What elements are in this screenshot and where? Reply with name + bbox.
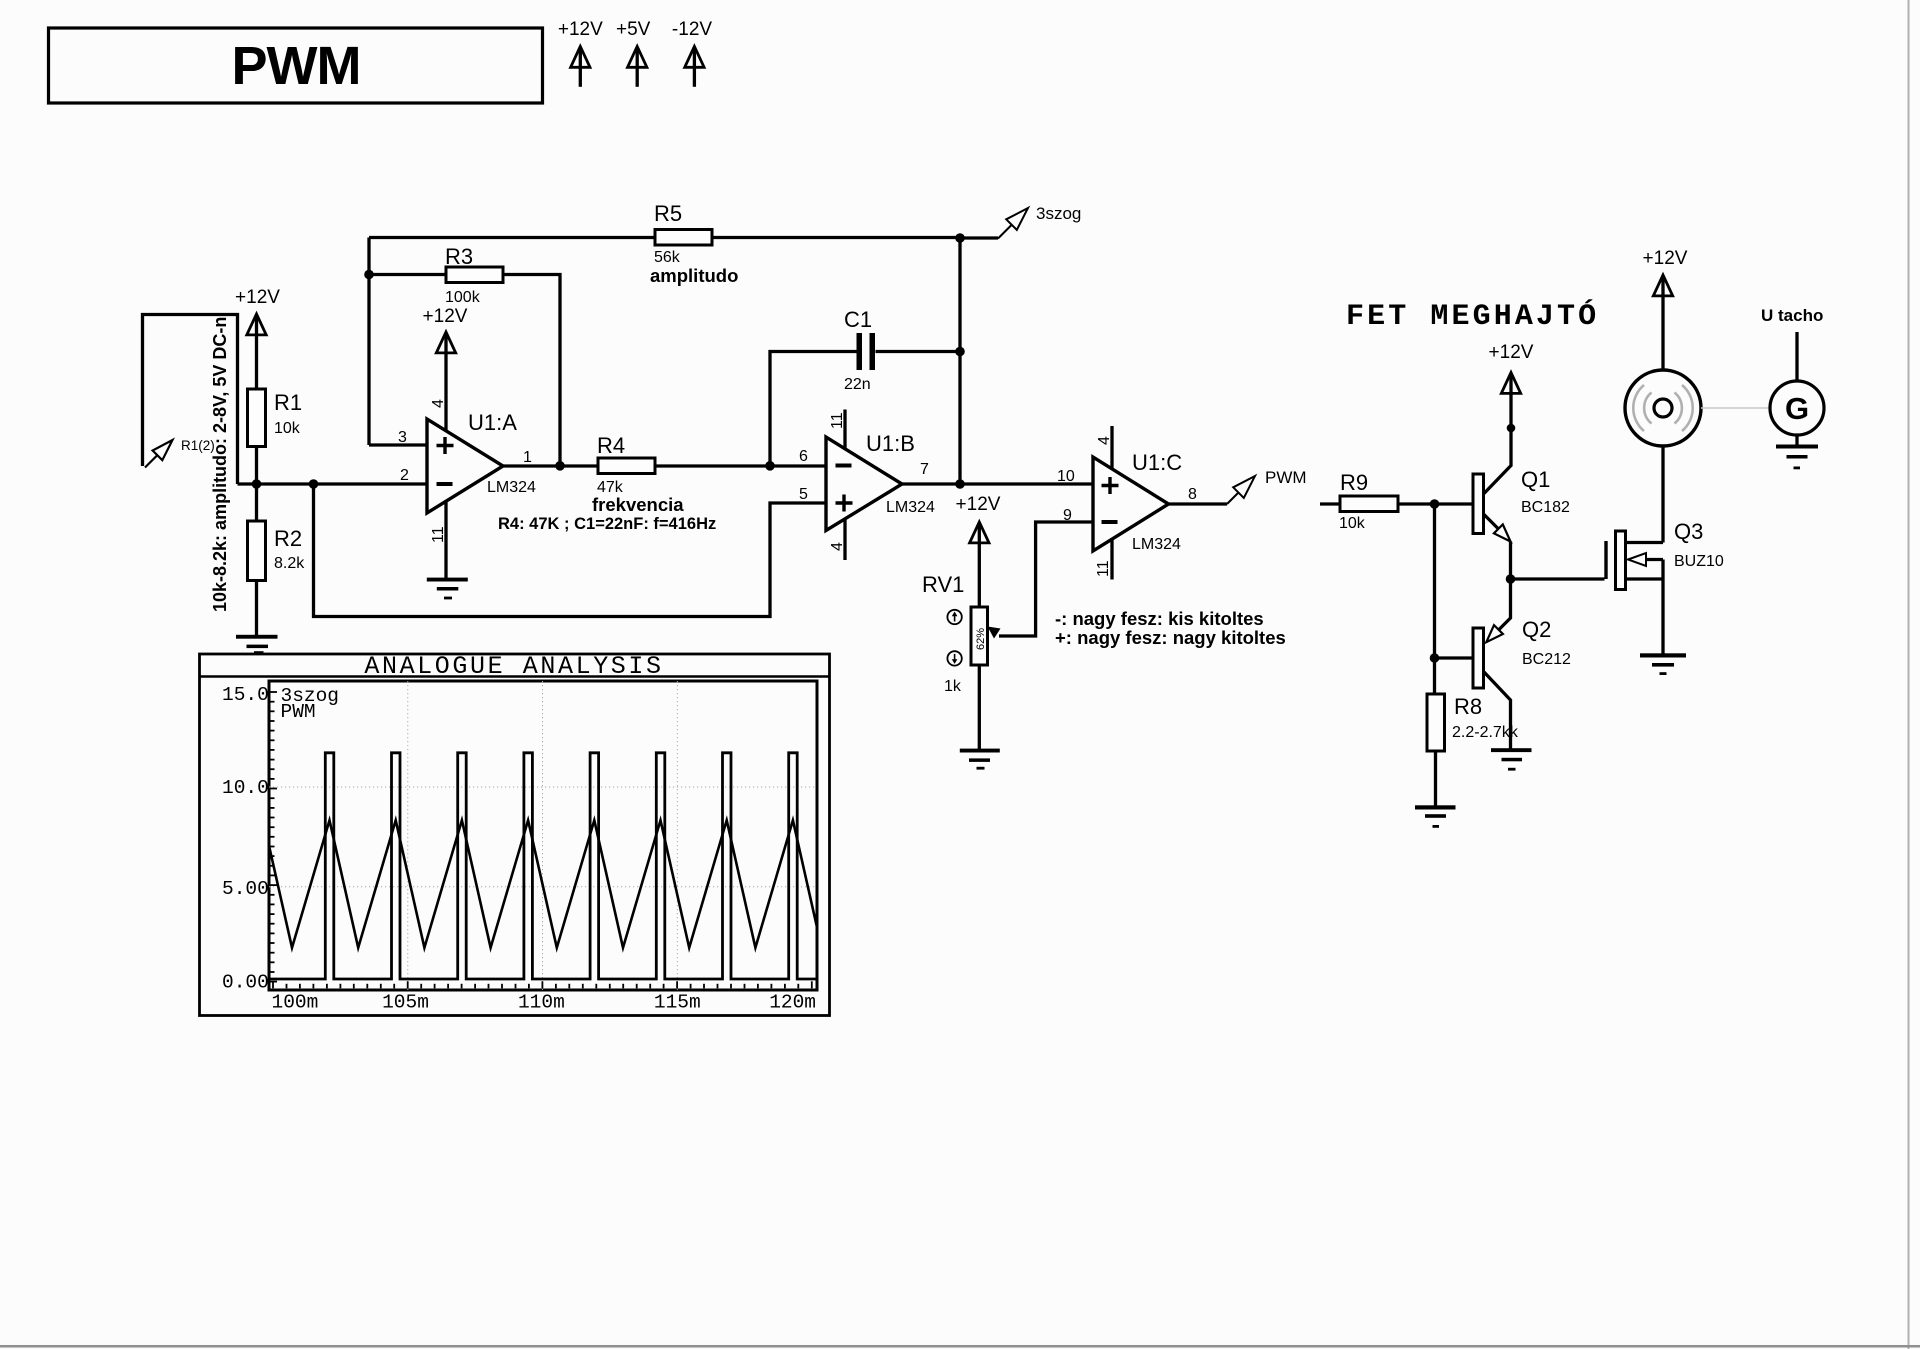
svg-text:100m: 100m <box>272 992 319 1014</box>
power terminal +5V (top) <box>616 19 651 87</box>
svg-text:22n: 22n <box>844 376 871 393</box>
svg-text:+5V: +5V <box>616 19 651 40</box>
svg-text:3szog: 3szog <box>1036 204 1081 223</box>
svg-text:+12V: +12V <box>956 494 1001 515</box>
op-amp U1:B <box>799 412 935 551</box>
svg-text:Q3: Q3 <box>1674 519 1703 544</box>
input bracket wire (loop around side note) <box>143 315 238 485</box>
wire R4 to U1:B pin6 <box>655 464 826 467</box>
graph outer frame <box>200 654 830 1016</box>
tacho stem <box>1795 332 1798 381</box>
resistor R5 <box>650 201 738 286</box>
resistor R8 <box>1427 694 1519 806</box>
output column wire <box>958 238 961 485</box>
svg-text:62%: 62% <box>975 628 987 650</box>
svg-text:-12V: -12V <box>672 19 712 40</box>
svg-text:10k: 10k <box>274 420 301 437</box>
motor M <box>1625 370 1701 446</box>
mosfet Q3 <box>1606 519 1724 654</box>
svg-text:100k: 100k <box>445 289 481 306</box>
svg-text:FET MEGHAJTÓ: FET MEGHAJTÓ <box>1346 299 1599 334</box>
trace PWM <box>269 753 817 979</box>
svg-text:G: G <box>1785 391 1809 426</box>
resistor R9 <box>1320 470 1473 532</box>
op-amp U1:A <box>398 399 536 543</box>
wire R2 to ground <box>255 581 258 636</box>
y axis ticks <box>269 692 277 982</box>
page bottom border <box>0 1345 1920 1348</box>
svg-text:R9: R9 <box>1340 470 1368 495</box>
junction (gate node) <box>1506 574 1516 584</box>
gridline 10.0 <box>269 786 817 788</box>
junction (Q2 base) <box>1430 653 1440 663</box>
ground (RV1) <box>960 749 1000 770</box>
svg-text:BC212: BC212 <box>1522 651 1571 668</box>
svg-text:5: 5 <box>799 486 808 503</box>
resistor R2 <box>248 521 306 581</box>
svg-text:+: nagy fesz: nagy kitoltes: +: nagy fesz: nagy kitoltes <box>1055 627 1286 648</box>
gridline 115m <box>676 681 678 990</box>
ground (Q3 source) <box>1640 653 1686 675</box>
junction (pin1 / R3) <box>555 461 565 471</box>
ground (U1:A pin11) <box>427 578 468 600</box>
svg-text:11: 11 <box>1095 560 1112 577</box>
svg-text:-: nagy fesz: kis kitoltes: -: nagy fesz: kis kitoltes <box>1055 608 1264 629</box>
svg-text:BC182: BC182 <box>1521 499 1570 516</box>
svg-text:5.00: 5.00 <box>222 878 269 900</box>
svg-text:3: 3 <box>398 429 407 446</box>
svg-text:U1:C: U1:C <box>1132 450 1182 475</box>
svg-text:+12V: +12V <box>1643 248 1688 269</box>
U1:C pin4 stem <box>1110 426 1113 469</box>
gridline 5.00 <box>269 886 817 888</box>
title block PWM <box>49 28 543 103</box>
junction (C1 / pin6) <box>765 461 775 471</box>
svg-text:115m: 115m <box>654 992 701 1014</box>
svg-text:R3: R3 <box>445 244 473 269</box>
svg-text:8.2k: 8.2k <box>274 555 305 572</box>
U1:B pin4 stem <box>843 519 846 560</box>
svg-text:U1:B: U1:B <box>866 431 915 456</box>
ground (Q2 collector) <box>1491 748 1532 770</box>
trace 3szog triangle <box>269 820 817 947</box>
plot area box <box>269 681 817 990</box>
svg-text:110m: 110m <box>518 992 565 1014</box>
svg-text:frekvencia: frekvencia <box>592 494 684 515</box>
gate wire <box>1511 577 1605 580</box>
svg-text:+12V: +12V <box>235 287 280 308</box>
svg-text:15.0: 15.0 <box>222 684 269 706</box>
svg-text:10: 10 <box>1057 468 1075 485</box>
power terminal +12V (RV1 top) <box>956 494 1001 607</box>
transistor Q2 <box>1435 579 1572 749</box>
svg-text:R2: R2 <box>274 526 302 551</box>
svg-text:R4: R4 <box>597 433 625 458</box>
svg-text:1k: 1k <box>944 678 962 695</box>
transistor Q1 <box>1473 428 1570 579</box>
potentiometer RV1 <box>922 572 988 695</box>
generator G <box>1770 381 1824 435</box>
graph title divider <box>200 675 830 678</box>
U1:A pin11 stem <box>444 500 447 579</box>
svg-text:PWM: PWM <box>232 36 361 96</box>
power terminal +12V (above R1) <box>235 287 280 389</box>
power terminal +12V (U1:A pin4) <box>423 306 468 431</box>
resistor R1 <box>248 389 303 447</box>
node wire pin2 row <box>238 482 428 485</box>
base rail down to Q2/R8 <box>1433 504 1436 694</box>
circled up arrow <box>947 610 961 624</box>
svg-text:+12V: +12V <box>423 306 468 327</box>
wire pin1 to R4 <box>503 464 598 467</box>
ground (below R2) <box>236 635 278 654</box>
node B (feedback tap) <box>309 479 319 489</box>
svg-text:ANALOGUE ANALYSIS: ANALOGUE ANALYSIS <box>364 652 663 681</box>
wire G to ground <box>1795 435 1798 445</box>
svg-text:Q2: Q2 <box>1522 617 1551 642</box>
svg-text:R4: 47K ; C1=22nF: f=416Hz: R4: 47K ; C1=22nF: f=416Hz <box>498 515 716 533</box>
svg-text:U1:A: U1:A <box>468 410 517 435</box>
x axis ticks <box>273 981 812 988</box>
top wire to R5 <box>369 236 655 239</box>
svg-text:Q1: Q1 <box>1521 467 1550 492</box>
svg-text:2: 2 <box>400 467 409 484</box>
U1:B pin11 stem <box>843 410 846 449</box>
svg-text:U tacho: U tacho <box>1761 306 1823 325</box>
svg-text:PWM: PWM <box>281 701 316 723</box>
svg-text:0.00: 0.00 <box>222 972 269 994</box>
gridline 105m <box>407 681 409 990</box>
svg-text:4: 4 <box>430 399 447 408</box>
page right border <box>1908 0 1910 1349</box>
svg-text:105m: 105m <box>382 992 429 1014</box>
feedback wire to U1:B pin5 <box>314 484 827 617</box>
svg-text:1: 1 <box>523 449 532 466</box>
svg-text:RV1: RV1 <box>922 572 964 597</box>
svg-text:9: 9 <box>1063 507 1072 524</box>
RV1 wiper arrow <box>988 522 1094 639</box>
ground (G) <box>1776 445 1818 470</box>
left vertical wire <box>367 238 370 446</box>
svg-text:6: 6 <box>799 448 808 465</box>
junction (pin7 node) <box>955 479 965 489</box>
svg-text:10.0: 10.0 <box>222 777 269 799</box>
svg-text:R5: R5 <box>654 201 682 226</box>
svg-text:PWM: PWM <box>1265 468 1307 487</box>
shaft link (gray) <box>1701 407 1770 409</box>
terminal 3szog <box>960 204 1081 239</box>
capacitor C1 branch <box>770 307 960 466</box>
wire R5 to node <box>712 236 960 239</box>
svg-text:8: 8 <box>1188 486 1197 503</box>
terminal PWM output <box>1169 468 1307 504</box>
svg-text:56k: 56k <box>654 249 681 266</box>
junction (R3 tap) <box>364 270 374 280</box>
resistor R4 <box>597 433 655 496</box>
op-amp U1:C <box>1063 436 1197 577</box>
svg-text:LM324: LM324 <box>487 479 536 496</box>
svg-text:R8: R8 <box>1454 694 1482 719</box>
svg-text:+12V: +12V <box>558 19 603 40</box>
wire motor to Q3 drain <box>1661 446 1664 543</box>
svg-text:10k: 10k <box>1339 515 1366 532</box>
svg-text:R1: R1 <box>274 390 302 415</box>
node A (R1/R2 divider) <box>252 479 262 489</box>
power terminal -12V (top) <box>672 19 712 87</box>
wire R1 to node <box>255 447 258 522</box>
wire pin3 from divider column <box>369 443 427 446</box>
svg-text:amplitudo: amplitudo <box>650 265 738 286</box>
svg-text:BUZ10: BUZ10 <box>1674 553 1724 570</box>
pointer arrow R1(2) <box>145 438 215 468</box>
resistor R3 branch <box>369 244 560 466</box>
junction (R9 / Q1 base) <box>1430 499 1440 509</box>
svg-text:C1: C1 <box>844 307 872 332</box>
power terminal +12V (motor) <box>1643 248 1688 370</box>
power terminal +12V (Q1 collector) <box>1489 342 1534 432</box>
svg-text:7: 7 <box>920 461 929 478</box>
svg-text:10k-8.2k: amplitudo: 2-8V, 5V: 10k-8.2k: amplitudo: 2-8V, 5V DC-n <box>210 317 230 612</box>
svg-text:2.2-2.7kk: 2.2-2.7kk <box>1452 724 1519 741</box>
svg-text:LM324: LM324 <box>886 499 935 516</box>
wire pin7 to U1:C pin10 <box>902 482 1093 485</box>
power terminal +12V (top) <box>558 19 603 87</box>
circled down arrow <box>947 651 961 665</box>
gridline 110m <box>542 681 544 990</box>
junction (R5 / 3szog) <box>955 233 965 243</box>
junction (C1 right / output column) <box>955 347 965 357</box>
svg-text:+12V: +12V <box>1489 342 1534 363</box>
ground (R8) <box>1415 805 1456 828</box>
svg-text:LM324: LM324 <box>1132 536 1181 553</box>
svg-text:120m: 120m <box>769 992 816 1014</box>
RV1 bottom stem <box>978 665 981 749</box>
U1:C pin11 stem <box>1110 538 1113 580</box>
